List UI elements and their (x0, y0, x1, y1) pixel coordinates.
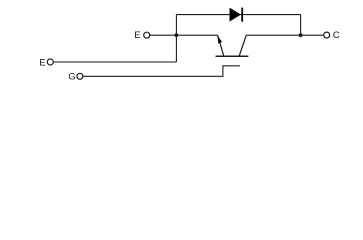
junction: collector drop on C wire (299, 33, 303, 37)
terminal circle E aux (144, 32, 150, 38)
diode D cathode bar (241, 8, 243, 22)
wire: top net between emitter bus and collector drop (diode branch) (176, 14, 300, 16)
wire: left vertical emitter bus (175, 15, 177, 62)
svg-text:E: E (134, 30, 140, 41)
wire: right vertical collector drop (300, 15, 302, 36)
terminal circle G (77, 73, 83, 79)
junction: aux emitter wire on left bus (175, 33, 179, 37)
IGBT Q emitter arrow head (218, 36, 223, 44)
svg-text:E: E (39, 58, 45, 69)
wire: E aux terminal to IGBT emitter (150, 34, 218, 36)
diode D (freewheel) anode triangle (230, 8, 241, 21)
svg-text:C: C (333, 30, 340, 41)
IGBT Q emitter slant (218, 35, 224, 56)
wire: E main terminal horizontal run (54, 61, 177, 63)
terminal circle E main (47, 59, 53, 65)
IGBT Q body bar (216, 55, 249, 57)
terminal circle C (324, 32, 330, 38)
svg-text:G: G (68, 72, 75, 83)
IGBT Q collector slant (239, 35, 246, 56)
wire: IGBT collector to C terminal (246, 34, 323, 36)
IGBT Q gate bar (222, 65, 240, 67)
wire: G terminal to gate lead (83, 66, 223, 77)
